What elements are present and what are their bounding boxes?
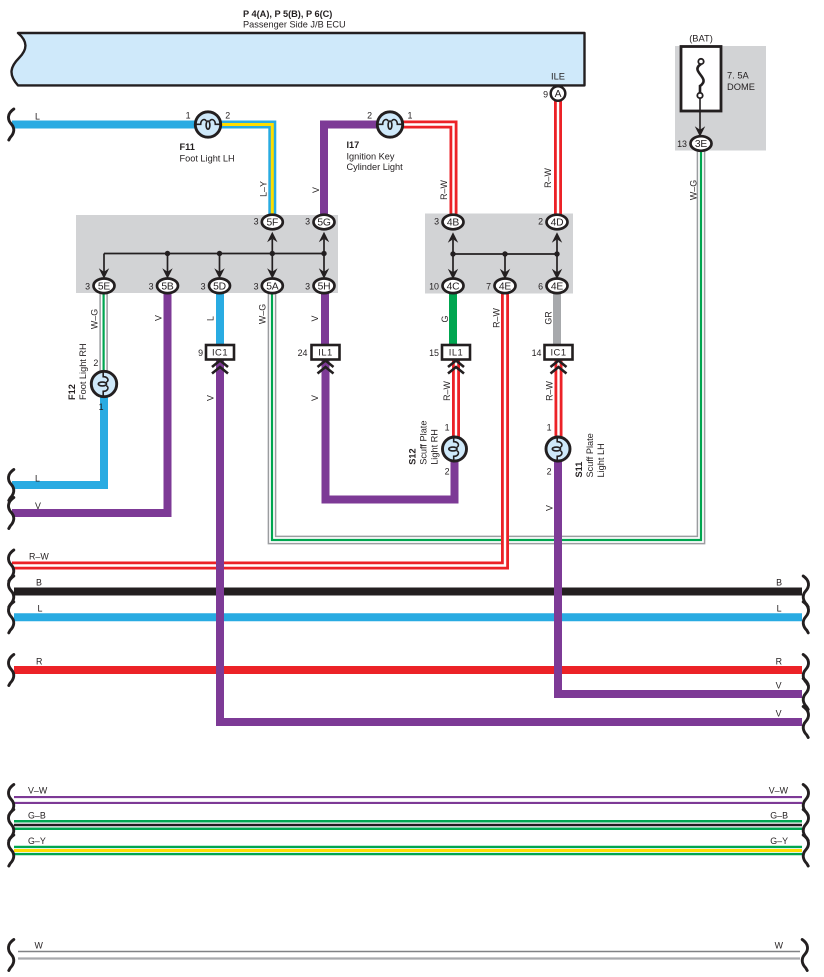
break right L: [803, 602, 808, 633]
connector oval 4E pin7: [495, 279, 516, 294]
svg-text:5H: 5H: [318, 281, 331, 292]
svg-text:V: V: [35, 501, 41, 511]
node dot 4E-7 branch: [502, 251, 507, 256]
svg-text:5D: 5D: [213, 281, 226, 292]
junction block J/B left (5x): [76, 215, 338, 293]
svg-text:S11: S11: [574, 462, 584, 478]
svg-text:1: 1: [408, 110, 413, 120]
svg-text:IC1: IC1: [550, 346, 566, 357]
svg-text:5F: 5F: [266, 217, 278, 228]
svg-text:IL1: IL1: [449, 346, 464, 357]
svg-text:4E: 4E: [499, 281, 512, 292]
bus wire B: [14, 588, 802, 596]
right block internal bus wire: [453, 253, 557, 255]
node dot 4D/4E-6 branch: [554, 251, 559, 256]
svg-text:V: V: [776, 709, 782, 719]
svg-text:R–W: R–W: [29, 552, 49, 562]
svg-text:F11: F11: [180, 142, 195, 152]
node dot 5G/5H branch: [321, 251, 326, 256]
node dot 5D branch: [217, 251, 222, 256]
wire R-W from I17 pin1 to 4B: [403, 125, 454, 216]
svg-text:10: 10: [429, 281, 439, 291]
break left R-W: [8, 550, 13, 581]
svg-text:4D: 4D: [551, 217, 564, 228]
svg-text:3: 3: [85, 281, 90, 291]
connector box IC1 pin14: [545, 345, 573, 360]
svg-text:V: V: [310, 395, 320, 401]
bulb F12 Foot Light RH: [91, 371, 116, 398]
svg-text:F12: F12: [67, 384, 77, 400]
svg-text:2: 2: [93, 358, 98, 368]
connector box IL1 pin15: [442, 345, 470, 360]
break left V (5B): [8, 498, 13, 529]
svg-text:7. 5A: 7. 5A: [727, 71, 750, 81]
wire R-W from ECU pin ILE-9(A) to 4D: [554, 100, 562, 215]
svg-text:5G: 5G: [317, 217, 331, 228]
svg-text:G–B: G–B: [770, 811, 788, 821]
svg-text:G: G: [440, 315, 450, 322]
svg-text:V: V: [776, 681, 782, 691]
svg-text:15: 15: [429, 348, 439, 358]
svg-text:W–G: W–G: [90, 309, 100, 329]
svg-text:6: 6: [538, 281, 543, 291]
wire GR from 4E pin6 to connector IC1 pin14: [553, 293, 561, 346]
svg-text:3: 3: [305, 217, 310, 227]
svg-text:9: 9: [198, 348, 203, 358]
svg-text:S12: S12: [408, 448, 418, 464]
wire R-W from IC1 pin14 to S11 pin1: [555, 359, 563, 437]
connector oval 5E: [94, 279, 115, 294]
svg-text:Cylinder Light: Cylinder Light: [347, 162, 404, 172]
connector box IL1 pin24: [312, 345, 340, 360]
svg-text:9: 9: [543, 90, 548, 100]
svg-text:L–Y: L–Y: [259, 181, 269, 197]
junction block J/B right (4x): [425, 214, 573, 294]
connector box IC1 pin9: [206, 345, 234, 360]
break right R: [803, 655, 808, 686]
svg-text:4B: 4B: [447, 217, 460, 228]
svg-text:W: W: [775, 941, 784, 951]
connector oval 4C: [443, 279, 464, 294]
break right B: [803, 576, 808, 607]
fuse output line and arrow to 3E: [695, 98, 705, 137]
svg-text:B: B: [36, 578, 42, 588]
svg-text:W–G: W–G: [258, 304, 268, 324]
arrow down into 4C: [448, 254, 458, 279]
break right V lower: [803, 707, 808, 738]
svg-text:5B: 5B: [161, 281, 174, 292]
svg-text:L: L: [206, 316, 216, 321]
svg-text:V–W: V–W: [28, 786, 48, 796]
arrow down into 5B: [162, 254, 172, 279]
wire R-W from IL1 pin15 to S12 pin1: [452, 359, 460, 437]
bus wire R: [14, 666, 802, 674]
svg-text:3: 3: [149, 281, 154, 291]
svg-text:I17: I17: [347, 140, 360, 150]
svg-text:2: 2: [445, 467, 450, 477]
wire W-G from 5E to F12 pin2: [100, 293, 107, 371]
chevron marks IL1-24: [318, 361, 334, 374]
svg-text:3: 3: [305, 281, 310, 291]
svg-text:1: 1: [445, 423, 450, 433]
svg-text:R: R: [36, 657, 42, 667]
svg-text:Passenger Side J/B ECU: Passenger Side J/B ECU: [243, 19, 346, 29]
break left G-B: [8, 810, 13, 841]
svg-text:R: R: [776, 657, 782, 667]
svg-text:R–W: R–W: [492, 308, 502, 328]
break left B: [8, 576, 13, 607]
svg-text:Light LH: Light LH: [596, 443, 606, 477]
svg-text:V: V: [154, 315, 164, 321]
svg-text:3: 3: [254, 281, 259, 291]
S12 name rotated: [408, 421, 440, 465]
bus wire V-W: [14, 796, 802, 804]
svg-text:W: W: [35, 941, 44, 951]
svg-text:A: A: [555, 89, 562, 100]
svg-text:ILE: ILE: [551, 72, 565, 82]
svg-text:V: V: [311, 187, 321, 193]
svg-text:2: 2: [538, 217, 543, 227]
svg-text:R–W: R–W: [442, 381, 452, 401]
wire V from IC1 pin9 down to right break (bottom V bus): [220, 359, 802, 722]
svg-text:L: L: [35, 112, 40, 122]
arrow up into 4B: [448, 232, 458, 254]
svg-text:14: 14: [532, 348, 542, 358]
svg-text:W–G: W–G: [689, 180, 699, 200]
wire G from 4C to connector IL1 pin15: [449, 293, 457, 346]
svg-text:3: 3: [434, 217, 439, 227]
chevron marks IC1-9: [212, 361, 228, 374]
svg-text:13: 13: [677, 139, 687, 149]
svg-text:1: 1: [547, 423, 552, 433]
break left L top: [8, 109, 13, 140]
break left L bus: [8, 602, 13, 633]
svg-text:Ignition Key: Ignition Key: [347, 152, 395, 162]
wire V from S11 pin2 down to right break (upper V bus): [558, 461, 802, 694]
break left W: [8, 940, 13, 971]
svg-text:L: L: [777, 604, 782, 614]
chevron marks IL1-15: [448, 361, 464, 374]
svg-text:3: 3: [254, 217, 259, 227]
S11 name rotated: [574, 433, 606, 477]
svg-text:Foot Light RH: Foot Light RH: [78, 343, 88, 400]
svg-text:5A: 5A: [266, 281, 279, 292]
node dot 5B branch: [165, 251, 170, 256]
svg-text:P 4(A), P 5(B), P 6(C): P 4(A), P 5(B), P 6(C): [243, 9, 332, 19]
arrow down into 5A: [267, 254, 277, 279]
svg-text:2: 2: [367, 110, 372, 120]
arrow down into 5E: [99, 254, 109, 279]
svg-text:24: 24: [298, 348, 308, 358]
svg-text:Scuff Plate: Scuff Plate: [585, 433, 595, 477]
break left G-Y: [8, 835, 13, 866]
arrow up into 4D: [552, 232, 562, 254]
wire R-W from 4E pin7 down and left to break: [12, 293, 505, 566]
wire L from F12 pin1 down to left break: [12, 397, 104, 485]
break right G-Y: [803, 835, 808, 866]
svg-text:Scuff Plate: Scuff Plate: [419, 421, 429, 465]
svg-text:B: B: [776, 578, 782, 588]
node dot 4B/4C branch: [450, 251, 455, 256]
fuse box 7.5A DOME: [681, 47, 721, 112]
left block internal bus wire: [104, 253, 324, 255]
arrow down into 4E pin6: [552, 254, 562, 279]
connector oval 5G: [314, 215, 335, 230]
svg-text:G–Y: G–Y: [28, 836, 46, 846]
break left V-W: [8, 785, 13, 816]
bulb S12 Scuff Plate Light RH: [443, 436, 467, 463]
arrow down into 5D: [214, 254, 224, 279]
connector oval 5D: [209, 279, 230, 294]
wire V from 5H to connector IL1 pin24: [321, 293, 329, 346]
svg-text:R–W: R–W: [545, 381, 555, 401]
break right W: [802, 940, 807, 971]
F12 name rotated: [67, 343, 88, 400]
svg-text:1: 1: [99, 402, 104, 412]
ECU block P4/P5/P6 Passenger Side J/B ECU: [12, 33, 585, 85]
connector oval 4B: [443, 215, 464, 230]
bulb S11 Scuff Plate Light LH: [546, 436, 570, 463]
svg-text:IL1: IL1: [318, 346, 333, 357]
bus wire L: [14, 613, 802, 621]
svg-text:5E: 5E: [98, 281, 111, 292]
bus wire G-Y: [14, 846, 802, 856]
connector oval 5H: [314, 279, 335, 294]
svg-text:L: L: [38, 604, 43, 614]
bus wire W: [18, 952, 800, 959]
svg-text:DOME: DOME: [727, 82, 755, 92]
svg-text:GR: GR: [544, 311, 554, 324]
svg-text:2: 2: [225, 110, 230, 120]
chevron marks IC1-14: [551, 361, 567, 374]
svg-text:4E: 4E: [551, 281, 564, 292]
fuse element symbol: [697, 59, 703, 98]
connector oval 5A: [262, 279, 283, 294]
wire L from 5D to connector IC1 pin9: [216, 293, 224, 346]
break left R: [8, 655, 13, 686]
wire L from left break to F11 pin1: [12, 121, 195, 129]
break left L (F12): [8, 470, 13, 501]
ECU pin A (ILE): [551, 86, 566, 101]
svg-text:L: L: [35, 474, 40, 484]
svg-text:G–Y: G–Y: [770, 836, 788, 846]
svg-text:R–W: R–W: [439, 180, 449, 200]
wire V from IL1 pin24 to S12 pin2: [326, 359, 455, 500]
connector oval 4E pin6: [547, 279, 568, 294]
wire V from 5B down to left break: [12, 293, 168, 513]
wire W-G from fuse 3E down, left, up to 5A (3 lines: gray/green/gray): [268, 151, 704, 544]
break right G-B: [803, 810, 808, 841]
svg-text:3: 3: [201, 281, 206, 291]
svg-text:Foot Light LH: Foot Light LH: [180, 153, 235, 163]
svg-text:(BAT): (BAT): [689, 34, 713, 44]
bulb F11 Foot Light LH: [195, 112, 222, 137]
svg-text:IC1: IC1: [212, 346, 228, 357]
svg-text:V: V: [545, 505, 555, 511]
connector oval 4D: [547, 215, 568, 230]
node dot 5F/5A branch: [270, 251, 275, 256]
svg-text:7: 7: [486, 281, 491, 291]
svg-text:3E: 3E: [695, 139, 708, 150]
svg-text:4C: 4C: [447, 281, 461, 292]
svg-text:1: 1: [186, 110, 191, 120]
svg-text:Light RH: Light RH: [430, 429, 440, 465]
break right V upper: [803, 679, 808, 710]
connector 3E: [691, 136, 712, 151]
arrow up into 5F: [267, 232, 277, 254]
svg-text:R–W: R–W: [543, 168, 553, 188]
bulb I17 Ignition Key Cylinder Light: [377, 112, 404, 137]
svg-text:V–W: V–W: [769, 786, 789, 796]
wire V from I17 pin2 to 5G: [324, 125, 377, 216]
arrow down into 5H: [319, 254, 329, 279]
arrow up into 5G: [319, 232, 329, 254]
svg-text:2: 2: [547, 467, 552, 477]
connector oval 5F: [262, 215, 283, 230]
svg-text:G–B: G–B: [28, 811, 46, 821]
break right V-W: [803, 785, 808, 816]
svg-text:V: V: [206, 395, 216, 401]
svg-text:V: V: [310, 315, 320, 321]
arrow down into 4E pin7: [500, 254, 510, 279]
bus wire G-B: [14, 820, 802, 830]
connector oval 5B: [157, 279, 178, 294]
fuse block holder: [675, 46, 766, 151]
wire L-Y from F11 pin2 to 5F: [221, 125, 272, 216]
